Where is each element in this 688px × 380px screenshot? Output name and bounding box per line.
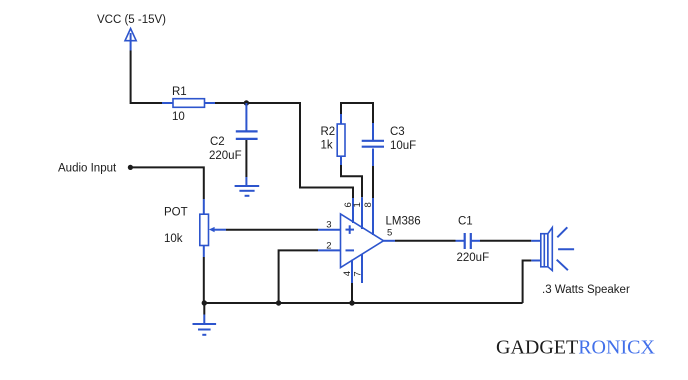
wire pin 4 to ground rail xyxy=(351,283,353,303)
part label LM386 xyxy=(386,216,421,228)
pin number 2 xyxy=(326,240,331,251)
speaker LS1 body xyxy=(541,228,553,271)
node rail/POT xyxy=(202,300,207,305)
svg-text:4: 4 xyxy=(342,271,353,276)
value 220uF xyxy=(209,150,242,162)
value 1k xyxy=(321,140,333,152)
wire speaker bottom to rail xyxy=(523,261,541,304)
resistor R1 xyxy=(173,99,215,108)
ground (below C2) xyxy=(235,186,260,196)
label R2 xyxy=(321,126,336,138)
wire VCC to R1 xyxy=(131,51,173,104)
capacitor C2 xyxy=(236,131,258,139)
op-amp pin 1 stub xyxy=(361,197,363,229)
svg-text:R1: R1 xyxy=(172,86,187,98)
power symbol VCC arrow xyxy=(125,29,136,51)
wire audio input to POT xyxy=(130,167,203,214)
label C1 xyxy=(458,216,473,228)
value 10uF xyxy=(390,140,416,152)
wire POT bottom to rail xyxy=(203,246,205,304)
op-amp pin 7 stub xyxy=(361,254,363,283)
svg-text:LM386: LM386 xyxy=(386,216,421,228)
wire wiper to pin 3 xyxy=(226,229,341,231)
wire R2/C3 top bus xyxy=(341,103,373,124)
svg-text:8: 8 xyxy=(363,202,374,207)
wire C1 to speaker xyxy=(472,240,541,242)
op-amp U1 LM386 triangle xyxy=(341,214,384,268)
svg-text:POT: POT xyxy=(164,207,188,219)
value 10 xyxy=(172,111,185,123)
value 10k xyxy=(164,233,183,245)
label .3 Watts Speaker xyxy=(542,284,630,296)
svg-text:5: 5 xyxy=(387,227,392,238)
audio input terminal dot xyxy=(128,165,133,170)
capacitor C1 xyxy=(465,233,471,249)
wire bottom ground rail xyxy=(204,302,522,304)
svg-text:10: 10 xyxy=(172,111,185,123)
pin number 7 xyxy=(352,271,363,276)
svg-text:.3 Watts Speaker: .3 Watts Speaker xyxy=(542,284,630,296)
pin number 8 xyxy=(363,202,374,207)
wire C2 to ground xyxy=(245,140,247,186)
wire rail to ground symbol xyxy=(203,303,205,324)
wire C3 bottom to pin 8 xyxy=(372,149,374,199)
wire pin 2 to rail xyxy=(279,250,341,303)
label Audio Input xyxy=(58,163,117,175)
pin number 1 xyxy=(352,202,363,207)
op-amp minus input mark xyxy=(346,249,355,251)
wire R2 bottom to pin 1 xyxy=(341,165,362,197)
wire node to C2 xyxy=(245,103,247,131)
svg-text:R2: R2 xyxy=(321,126,336,138)
svg-text:VCC (5 -15V): VCC (5 -15V) xyxy=(97,14,166,26)
node rail/pin4 xyxy=(349,300,354,305)
svg-text:1: 1 xyxy=(352,202,363,207)
op-amp pin 4 stub xyxy=(351,260,353,283)
logo GADGETRONICX xyxy=(496,337,655,359)
op-amp pin 6 stub xyxy=(352,198,354,223)
svg-text:3: 3 xyxy=(326,219,331,230)
svg-text:10uF: 10uF xyxy=(390,140,416,152)
svg-text:1k: 1k xyxy=(321,140,333,152)
net label VCC xyxy=(97,14,166,26)
svg-text:C1: C1 xyxy=(458,216,473,228)
op-amp pin 8 stub xyxy=(372,198,374,235)
node rail/pin2 xyxy=(276,300,281,305)
wire R1 to node and to pin6 branch xyxy=(215,103,353,198)
speaker sound waves xyxy=(557,227,574,270)
svg-text:C3: C3 xyxy=(390,126,405,138)
op-amp plus input mark xyxy=(346,225,355,234)
label POT xyxy=(164,207,188,219)
label R1 xyxy=(172,86,187,98)
capacitor C3 xyxy=(362,141,384,147)
svg-text:220uF: 220uF xyxy=(209,150,242,162)
pin number 4 xyxy=(342,271,353,276)
ground (below POT) xyxy=(193,324,217,335)
label C3 xyxy=(390,126,405,138)
resistor R2 xyxy=(337,124,345,165)
pin number 3 xyxy=(326,219,331,230)
potentiometer wiper arrow xyxy=(209,227,226,232)
potentiometer POT body xyxy=(200,214,209,245)
svg-text:GADGETRONICX: GADGETRONICX xyxy=(496,337,655,359)
pin number 5 xyxy=(387,227,392,238)
svg-text:Audio Input: Audio Input xyxy=(58,163,117,175)
svg-text:7: 7 xyxy=(352,271,363,276)
svg-text:10k: 10k xyxy=(164,233,183,245)
node junction R1/C2 xyxy=(244,100,249,105)
value 220uF xyxy=(457,252,490,264)
wire output pin 5 to C1 xyxy=(384,240,465,242)
svg-text:C2: C2 xyxy=(210,136,225,148)
wire C3 top stub xyxy=(372,123,374,141)
svg-text:220uF: 220uF xyxy=(457,252,490,264)
pin number 6 xyxy=(343,202,354,207)
label C2 xyxy=(210,136,225,148)
